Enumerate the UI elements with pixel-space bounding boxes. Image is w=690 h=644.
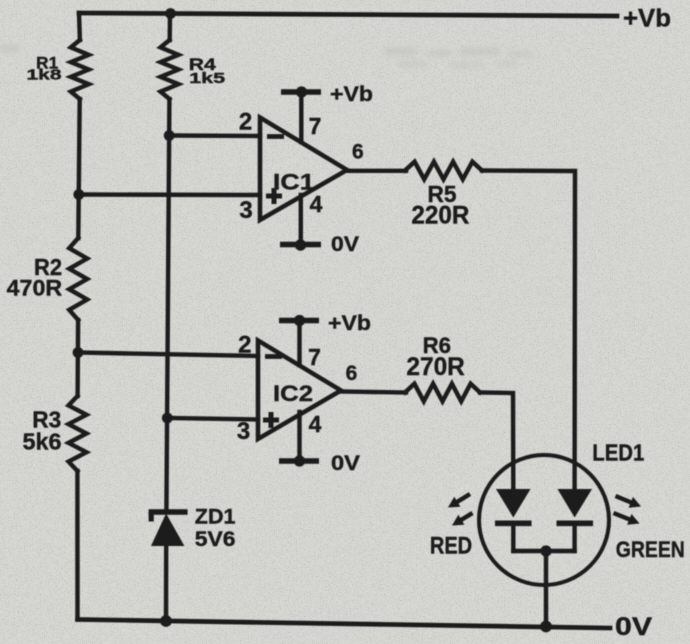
svg-text:5k6: 5k6 — [23, 429, 62, 455]
IC1 non-inverting input plus sign — [266, 188, 282, 204]
svg-text:6: 6 — [352, 141, 364, 164]
wire IC2 pin3 input — [167, 418, 258, 420]
svg-text:220R: 220R — [411, 202, 469, 230]
wire R5 to LED1 green anode (corner) — [482, 171, 575, 488]
svg-text:1k5: 1k5 — [189, 70, 225, 87]
svg-text:IC1: IC1 — [273, 170, 315, 195]
wire R4 column top segment — [167, 14, 172, 41]
wire green cathode to bridge — [572, 526, 576, 551]
wire R6 to LED1 red anode (corner) — [480, 393, 513, 488]
svg-text:3: 3 — [239, 197, 252, 224]
node R4 column / IC2 pin3 junction — [162, 413, 173, 424]
svg-text:2: 2 — [238, 332, 251, 359]
wire +Vb top rail — [79, 13, 617, 16]
node R2/R3 junction to IC2 pin2 — [73, 347, 84, 358]
wire common cathode bridge — [513, 549, 574, 553]
node top-rail / R4 column junction — [165, 8, 176, 19]
LED red diode (filled triangle + cathode bar) — [495, 489, 532, 526]
svg-text:+Vb: +Vb — [623, 5, 671, 33]
op-amp IC2 triangle — [258, 341, 341, 440]
svg-text:1k8: 1k8 — [27, 67, 62, 84]
node common cathode junction — [540, 545, 551, 556]
wire red cathode to bridge — [511, 526, 515, 551]
svg-text:6: 6 — [346, 362, 358, 385]
wire IC1 pin3 input — [79, 192, 260, 197]
svg-text:+Vb: +Vb — [328, 312, 371, 335]
wire common cathode to 0V rail — [544, 551, 548, 627]
wire IC2 pin2 input — [78, 353, 258, 357]
svg-text:2: 2 — [239, 109, 252, 136]
svg-text:270R: 270R — [406, 353, 465, 381]
svg-text:5V6: 5V6 — [195, 528, 236, 551]
op-amp IC1 triangle — [260, 118, 347, 221]
wire R4 column segment down to zener ZD1 — [166, 99, 169, 512]
resistor R2 — [69, 238, 87, 320]
svg-text:RED: RED — [430, 533, 472, 560]
svg-text:0V: 0V — [331, 232, 360, 256]
LED light arrows left (red) — [455, 494, 470, 503]
wire IC1 pin2 input — [169, 133, 260, 138]
IC2 inverting input minus sign — [265, 354, 282, 359]
wire left column top segment (top rail to R1) — [77, 13, 82, 40]
svg-text:GREEN: GREEN — [616, 537, 685, 562]
resistor R5 — [405, 162, 482, 180]
resistor R4 — [161, 40, 179, 99]
svg-text:0V: 0V — [615, 613, 652, 641]
svg-text:IC2: IC2 — [273, 381, 313, 406]
ghost print-through smudges (decorative) — [0, 44, 534, 69]
svg-text:LED1: LED1 — [592, 440, 644, 466]
wire 0V bottom rail — [78, 620, 611, 629]
wire IC1 output to R5 — [346, 169, 406, 173]
node R1/R2 junction to IC1 pin3 — [73, 189, 84, 200]
svg-text:0V: 0V — [331, 451, 361, 475]
zener diode ZD1 (cathode bar with tail + filled triangle) — [149, 512, 188, 546]
node LED / bottom rail junction — [540, 621, 552, 633]
wire IC1 pin7 to +Vb — [299, 92, 303, 142]
wire IC2 pin7 to +Vb — [297, 321, 301, 366]
wire left column segment R3 to bottom rail — [75, 471, 79, 620]
wire IC2 pin4 to 0V — [297, 412, 301, 461]
wire left column segment R2 to R3 — [75, 320, 80, 396]
IC2 +Vb supply bar — [279, 318, 319, 323]
IC1 +Vb supply bar — [281, 89, 321, 94]
resistor R3 — [69, 396, 87, 471]
wire left column segment R1 to R2 — [78, 99, 79, 238]
svg-text:+Vb: +Vb — [330, 83, 373, 106]
IC2 0V bar — [279, 458, 319, 463]
LED light arrows right (green) — [616, 496, 634, 503]
resistor R1 — [71, 40, 89, 99]
svg-text:470R: 470R — [7, 276, 63, 301]
wire zener anode to bottom rail — [164, 546, 169, 621]
wire IC1 pin4 to 0V — [299, 195, 303, 245]
IC2 non-inverting input plus sign — [263, 412, 279, 428]
svg-text:4: 4 — [309, 411, 322, 437]
svg-text:3: 3 — [237, 418, 250, 445]
LED1 package circle — [479, 455, 609, 585]
svg-text:ZD1: ZD1 — [195, 506, 236, 529]
svg-text:7: 7 — [308, 344, 321, 370]
resistor R6 — [405, 384, 480, 402]
svg-text:7: 7 — [309, 113, 322, 139]
wire IC2 output to R6 — [340, 392, 406, 393]
IC1 0V bar — [280, 242, 321, 248]
IC1 inverting input minus sign — [267, 134, 284, 139]
node R4 column / IC1 pin2 junction — [164, 130, 175, 141]
node zener column / bottom rail junction — [160, 615, 172, 627]
svg-text:4: 4 — [310, 191, 323, 217]
LED green diode (filled triangle + cathode bar) — [557, 489, 594, 526]
